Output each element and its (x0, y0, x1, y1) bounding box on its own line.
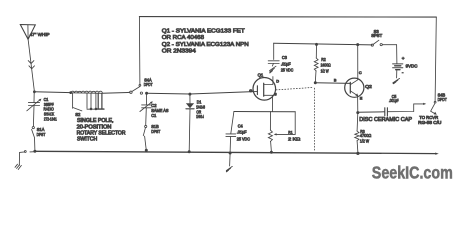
node R2 base junction (314, 81, 317, 84)
wire coil taps (87, 93, 102, 109)
svg-text:25 VDC: 25 VDC (237, 137, 250, 142)
label parts note Q1/Q2 (162, 29, 249, 55)
switch S2 rotary selector arm (73, 93, 82, 111)
node C4 rail junction (229, 152, 232, 155)
node D1 top junction (188, 93, 191, 96)
label D1 1N4148 OR 1N914 (196, 99, 205, 119)
svg-text:S1B: S1B (151, 124, 159, 129)
node antenna/tank junction (33, 90, 36, 93)
label S4A DPDT (144, 77, 153, 86)
diode D1 1N4148 (186, 94, 194, 151)
node tap contacts (87, 108, 104, 111)
wire bypass top rail (139, 16, 436, 19)
node R1 rail junction (270, 151, 273, 154)
resistor R3 4700 ohm (355, 113, 359, 153)
svg-text:2400Ω: 2400Ω (321, 63, 332, 68)
svg-text:DPST: DPST (37, 132, 46, 137)
svg-text:.01µF: .01µF (281, 62, 291, 67)
resistor R2 2400 ohm (314, 44, 318, 82)
node rail end arrow (435, 153, 439, 155)
svg-text:B: B (334, 78, 337, 82)
svg-text:25 VDC: 25 VDC (281, 68, 293, 73)
label R1 2 Kohm (288, 130, 300, 142)
label C2 SAME AS C1 (151, 103, 168, 118)
node Q2 collector rail junction (356, 43, 359, 46)
label S1A DPST (37, 127, 46, 137)
label R3 4700ohm 1/2 W (360, 129, 372, 144)
wire antenna mast down (28, 39, 34, 91)
capacitor C3 bypass (268, 43, 279, 63)
svg-text:E: E (360, 96, 363, 100)
wire tank top to coil (34, 91, 70, 94)
wire bypass right riser (435, 17, 436, 101)
svg-text:SINGLE POLE,: SINGLE POLE, (77, 118, 114, 124)
svg-text:Q1 - SYLVANIA ECG133 FET: Q1 - SYLVANIA ECG133 FET (162, 29, 245, 35)
svg-text:C1: C1 (151, 113, 157, 118)
svg-text:DPST: DPST (151, 129, 160, 134)
transistor Q1 FET (253, 77, 276, 112)
svg-text:2 KΩ: 2 KΩ (288, 137, 300, 142)
svg-text:C: C (359, 71, 362, 75)
node R2 top junction (315, 43, 318, 46)
label C3 .01uF 25 VDC (281, 55, 293, 73)
node C2 rail junction (145, 149, 148, 152)
svg-text:C4: C4 (238, 123, 244, 128)
potentiometer R1 2 Kohm (268, 112, 295, 152)
svg-text:1/2 W: 1/2 W (321, 68, 330, 73)
capacitor C5 .001uF output (358, 103, 426, 116)
wire ground bus bottom rail (35, 151, 437, 153)
wire bypass left riser (138, 17, 141, 85)
ground left (15, 164, 21, 169)
switch S1A DPST (32, 127, 35, 151)
svg-text:-: - (402, 70, 404, 75)
wire base line to Q2 (315, 82, 350, 85)
svg-text:SPST: SPST (371, 33, 382, 38)
node R3 rail junction (356, 152, 359, 155)
node Q2 emitter junction (356, 111, 359, 114)
svg-text:R2: R2 (321, 57, 326, 62)
svg-text:R1: R1 (288, 130, 293, 135)
svg-text:4700Ω: 4700Ω (360, 133, 372, 138)
chevron arrows on antenna wire (28, 61, 34, 64)
svg-text:OR 2N3394: OR 2N3394 (162, 48, 196, 54)
svg-text:Q2 - SYLVANIA ECG123A NPN: Q2 - SYLVANIA ECG123A NPN (162, 42, 249, 48)
svg-text:DPDT: DPDT (438, 97, 447, 102)
svg-text:OR RCA 40468: OR RCA 40468 (162, 35, 204, 41)
ground battery (393, 78, 400, 83)
node rail left junction (33, 150, 36, 153)
svg-text:ROTARY SELECTOR: ROTARY SELECTOR (77, 130, 126, 136)
svg-text:S2: S2 (75, 112, 81, 117)
svg-text:G: G (249, 89, 252, 93)
svg-text:9VDC: 9VDC (406, 63, 418, 68)
switch S4B DPDT (431, 101, 437, 114)
switch S4A DPDT (130, 84, 143, 94)
svg-text:DPDT: DPDT (144, 82, 153, 87)
capacitor C2 variable (140, 93, 153, 125)
ground C3 (270, 64, 276, 74)
svg-text:DISC CERAMIC CAP: DISC CERAMIC CAP (359, 117, 412, 123)
wire shield dotted vertical (313, 88, 315, 151)
label C4 .01uF 25 VDC (237, 123, 250, 141)
svg-text:SWITCH: SWITCH (77, 137, 98, 143)
node D1 rail junction (188, 150, 191, 153)
svg-text:RG-58 C/U: RG-58 C/U (418, 120, 441, 125)
switch S3 SPST (371, 40, 396, 46)
svg-text:+: + (402, 56, 405, 61)
wire gate line to Q1 (147, 92, 253, 94)
wire shield dotted horizontal (276, 87, 314, 90)
svg-text:Q2: Q2 (365, 84, 372, 89)
svg-text:D: D (276, 79, 279, 83)
wire source rail (234, 111, 295, 113)
capacitor C1 365PF variable (27, 92, 42, 127)
svg-text:.01µF: .01µF (237, 130, 247, 135)
wire drain supply rail (274, 43, 372, 45)
label S1B DPST (151, 124, 160, 134)
wire ground stub (19, 151, 35, 166)
node coil left end (69, 91, 72, 94)
node gate junction (145, 92, 148, 95)
wire ground stub C4 (229, 154, 232, 166)
ground C4 (226, 166, 232, 172)
inductor L1 tapped coil (71, 91, 103, 93)
svg-text:S: S (274, 93, 277, 97)
battery 9VDC (393, 45, 403, 78)
switch S1B DPST (143, 125, 146, 149)
svg-text:SeekIC.com: SeekIC.com (372, 162, 453, 182)
svg-text:47" WHIP: 47" WHIP (30, 32, 50, 37)
label S4B DPDT (438, 93, 447, 103)
transistor Q2 NPN (345, 45, 364, 113)
wire coil to S4A (102, 91, 130, 94)
label S2 SINGLE POLE, 20-POSITION ROTARY SELECTOR SWITCH (75, 112, 81, 117)
svg-text:.001µF: .001µF (389, 98, 399, 103)
label C5 .001uF (389, 94, 399, 103)
capacitor C4 .01uF (226, 112, 236, 153)
label R2 2400ohm 1/2 W (321, 57, 332, 73)
svg-text:1N914: 1N914 (196, 114, 204, 119)
svg-text:1/2 W: 1/2 W (360, 139, 370, 144)
label C1 365PF RADIO SHACK 272-1341 (44, 97, 58, 122)
label S3 SPST (371, 29, 382, 38)
svg-text:Q1: Q1 (258, 72, 264, 77)
label TO RCVR RG-58 C/U (418, 115, 441, 125)
svg-text:272-1341: 272-1341 (44, 116, 57, 121)
svg-text:C3: C3 (282, 55, 288, 60)
antenna 47" WHIP (20, 25, 35, 40)
